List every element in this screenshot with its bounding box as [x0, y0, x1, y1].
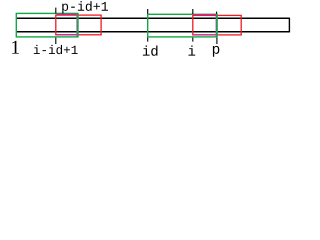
tick below box at id [147, 38, 149, 42]
red box 1 [i-id+1, ...] [56, 15, 101, 35]
label i-id+1 [34, 45, 78, 54]
red box 2 [i, ...] [193, 15, 241, 35]
magenta blend on red box 1 edges [57, 14, 78, 34]
main string box S[1..n] [16, 18, 289, 33]
label i [188, 45, 195, 55]
purple fringe left of green edge p [215, 15, 217, 36]
tick below box at i [192, 38, 194, 42]
green right edge redraw [77, 13, 79, 37]
label p [213, 46, 219, 57]
tick below green corner at p [216, 38, 218, 44]
tick above box at p-id+1 label [55, 8, 57, 14]
tick above box at i [192, 9, 194, 14]
green match box [id, p] [148, 14, 217, 37]
tick above green corner at p [216, 12, 218, 14]
tick above box at id [147, 9, 149, 14]
purple fringe left of green edge p-id+1 [76, 14, 78, 37]
green match box [1, p-id+1] [16, 13, 78, 37]
tick below box at i-id+1 [55, 38, 57, 44]
label 1 (bottom left) [12, 41, 19, 54]
magenta blend on red box 2 edges [194, 15, 217, 35]
label id [143, 45, 158, 55]
label p-id+1 (top) [62, 1, 108, 13]
green right edge redraw box2 [216, 14, 218, 37]
